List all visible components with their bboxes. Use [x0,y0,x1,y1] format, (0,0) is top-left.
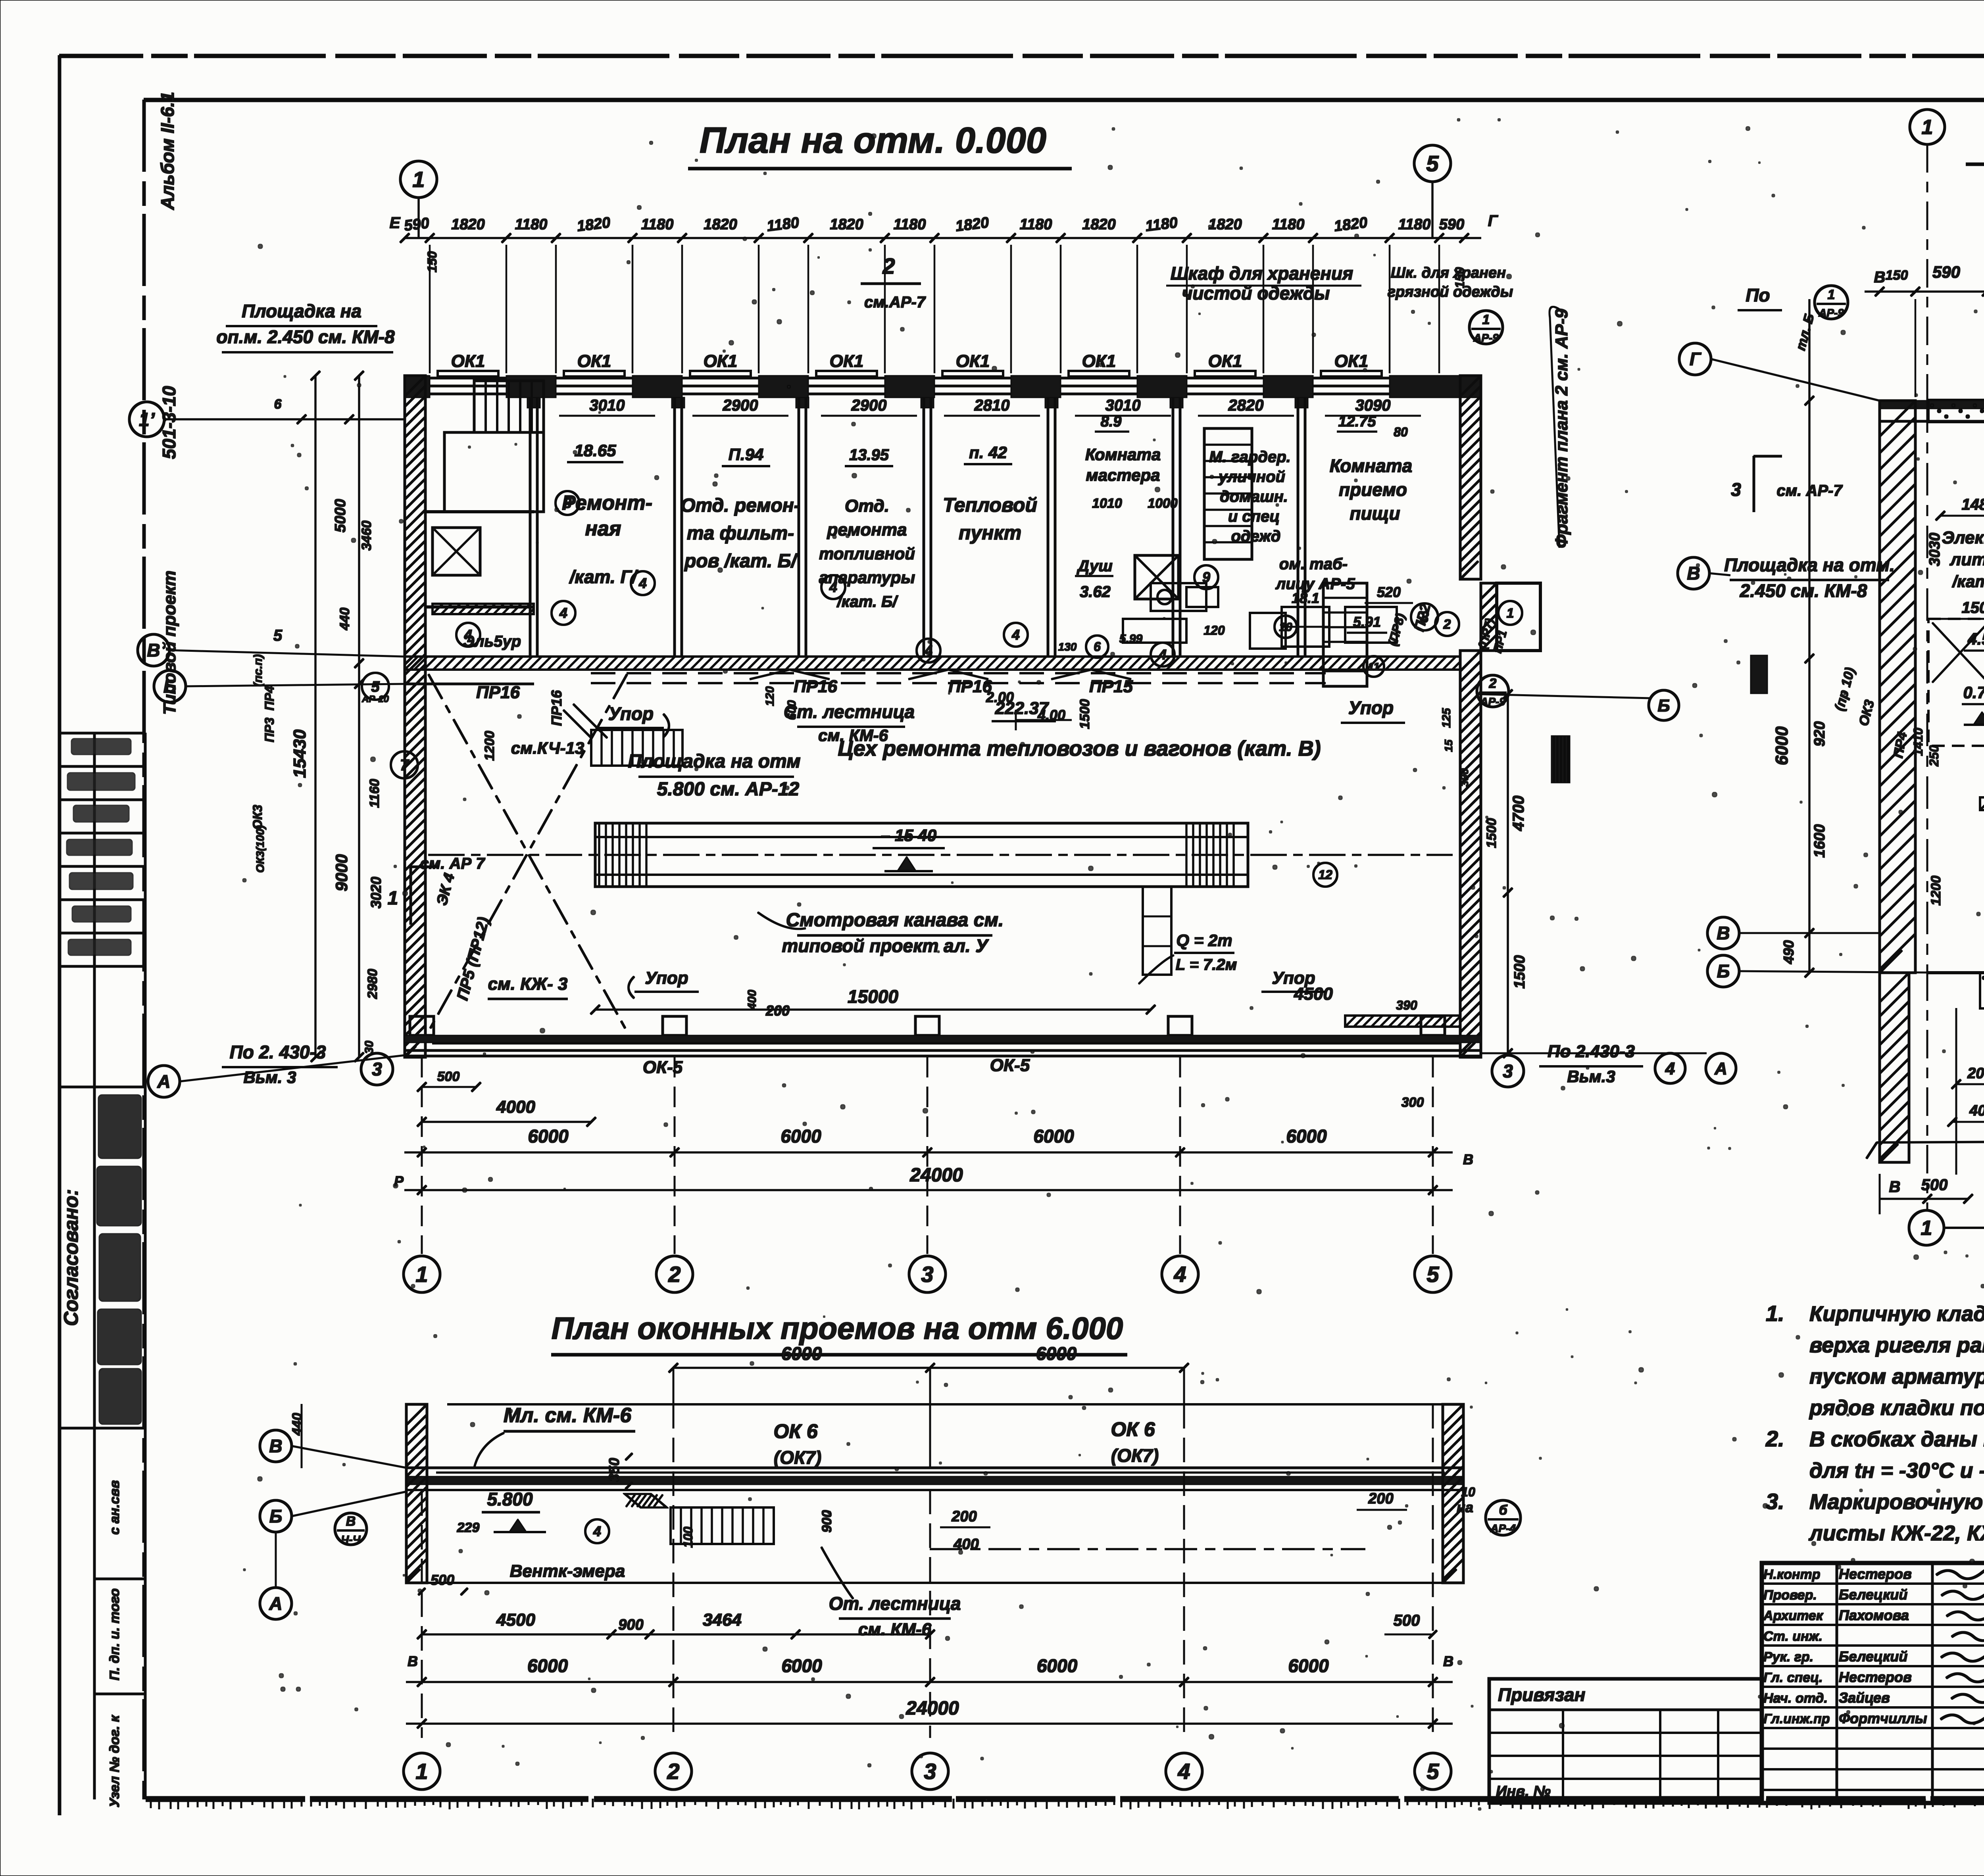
svg-text:3.62: 3.62 [1080,583,1111,601]
svg-text:домашн.: домашн. [1220,488,1288,505]
svg-text:А: А [157,1071,170,1092]
svg-text:АР-4: АР-4 [1490,1522,1516,1534]
svg-text:Б: Б [1657,696,1670,715]
svg-text:ремонта: ремонта [827,520,907,540]
svg-text:6000: 6000 [781,1343,822,1364]
svg-text:1160: 1160 [367,779,382,808]
svg-text:18.65: 18.65 [574,441,616,460]
svg-text:А: А [1714,1059,1727,1078]
svg-text:для tн = -30°С и - 40°С.: для tн = -30°С и - 40°С. [1809,1459,1984,1482]
sidebar column line 2 [144,733,146,1799]
svg-text:Отд.: Отд. [845,496,889,516]
circle 6 [1086,636,1108,658]
svg-text:5.800: 5.800 [487,1489,533,1509]
svg-text:АР-9: АР-9 [1818,307,1844,319]
svg-text:Смотровая канава см.: Смотровая канава см. [786,910,1004,931]
svg-text:Вьм.3: Вьм.3 [1567,1067,1615,1086]
svg-text:1: 1 [415,1262,428,1287]
scan noise speckles [243,119,1984,1810]
svg-text:229: 229 [457,1520,480,1535]
svg-text:б: б [1499,1503,1507,1518]
svg-text:ПР16: ПР16 [794,677,837,696]
svg-text:Пахомова: Пахомова [1839,1607,1909,1623]
svg-text:оп.м. 2.450 см. КМ-8: оп.м. 2.450 см. КМ-8 [216,326,395,347]
north exterior wall with windows OK1 [405,376,430,397]
svg-text:12.75: 12.75 [1338,413,1376,430]
window plan parapet line [448,1404,1463,1405]
left vertical dimension chain [358,376,360,1057]
svg-text:/кат. Г/: /кат. Г/ [569,566,638,587]
svg-text:листы КЖ-22, КЖ-23.: листы КЖ-22, КЖ-23. [1808,1521,1984,1545]
svg-text:4: 4 [1158,647,1167,663]
section mark 1 sm AR7 [410,867,412,924]
svg-text:Гл.инж.пр: Гл.инж.пр [1763,1711,1830,1726]
sheet inner frame left (dashed) [143,100,146,1799]
svg-text:6000: 6000 [1288,1655,1329,1676]
svg-text:5: 5 [371,678,380,695]
svg-text:А: А [269,1593,282,1614]
svg-text:11: 11 [1368,661,1379,673]
svg-text:1200: 1200 [1928,876,1944,906]
svg-text:Фортчиллы: Фортчиллы [1839,1710,1927,1726]
stair hatch upper left of pit [591,730,682,766]
svg-text:Цех ремонта тепловозов и ваг: Цех ремонта тепловозов и вагонов (кат. В… [838,737,1321,760]
right letter B circle [1649,690,1679,720]
fragment axis circle 1 top [1910,109,1945,144]
circle 4 markers along corridor [456,623,480,647]
svg-text:Н.контр: Н.контр [1763,1567,1821,1582]
svg-text:4500: 4500 [496,1610,535,1630]
svg-text:4: 4 [1011,627,1020,643]
svg-text:пуском арматуры в швы торц: пуском арматуры в швы торцевых стен чере… [1809,1365,1984,1388]
svg-text:400: 400 [1969,1102,1984,1119]
svg-text:1: 1 [1922,116,1933,139]
svg-text:3460: 3460 [359,520,374,551]
svg-text:ОК-5: ОК-5 [990,1056,1030,1075]
svg-text:2810: 2810 [974,397,1010,414]
svg-text:1820: 1820 [451,216,485,233]
svg-text:В: В [147,640,160,661]
svg-text:500: 500 [1394,1612,1420,1629]
svg-text:Нестеров: Нестеров [1839,1566,1912,1582]
svg-text:3010: 3010 [1105,397,1141,414]
svg-text:2: 2 [1443,617,1451,632]
fragment letter circles V B left [1707,917,1739,949]
svg-text:1500: 1500 [1511,955,1528,989]
fragment axis 1 line inside [1927,401,1928,973]
svg-text:ПР16: ПР16 [476,683,520,702]
svg-text:2980: 2980 [365,969,380,999]
fragment concrete pier [1980,973,1984,1008]
svg-text:3: 3 [372,1059,382,1079]
svg-text:3090: 3090 [1355,397,1391,414]
fragment left wall hatched [1880,401,1915,973]
window plan letter circles [260,1430,292,1462]
svg-text:1500: 1500 [1077,699,1092,729]
svg-text:900: 900 [819,1510,834,1533]
svg-text:ОК1: ОК1 [1334,351,1369,371]
svg-text:см. КЖ- 3: см. КЖ- 3 [488,974,568,994]
sheet outer border left [58,56,61,1815]
svg-text:120: 120 [763,686,777,706]
svg-text:на: на [1457,1499,1473,1515]
circle 3 bottom-left [361,1053,393,1085]
svg-text:Б: Б [163,676,177,697]
svg-text:В: В [1889,1178,1901,1196]
window plan window triple lines [436,1472,1444,1473]
svg-text:6: 6 [1094,639,1101,654]
svg-text:Мл. см. КМ-6: Мл. см. КМ-6 [504,1404,632,1427]
svg-text:1: 1 [1828,287,1835,302]
circle 8 remont [556,491,579,515]
window plan stair treads [671,1507,774,1544]
pit ladder left [598,823,600,887]
svg-text:см.АР-7: см.АР-7 [864,294,926,311]
svg-text:ная: ная [585,517,621,540]
svg-text:3464: 3464 [703,1610,742,1630]
svg-text:П.94: П.94 [729,445,764,464]
svg-text:1480: 1480 [1962,496,1984,513]
svg-text:Привязан: Привязан [1498,1684,1585,1705]
svg-text:1410: 1410 [1911,728,1925,756]
svg-text:5.91: 5.91 [1353,614,1381,630]
title block signature columns [1836,1563,1838,1803]
svg-text:150: 150 [1886,268,1908,283]
svg-text:Шкаф для хранения: Шкаф для хранения [1171,263,1353,284]
sheet outer border top (rough dashed) [60,54,1984,58]
dim row 24000 [405,1189,1452,1191]
window plan circle V/Ch-Ch [335,1513,367,1545]
svg-text:Ст. инж.: Ст. инж. [1763,1629,1823,1644]
svg-text:9000: 9000 [332,854,351,891]
svg-text:12: 12 [1318,868,1332,882]
svg-text:6000: 6000 [1036,1343,1077,1364]
svg-text:В: В [269,1436,282,1456]
window plan bottom line [409,1582,1464,1584]
bottom edge perforation ticks [151,1799,1984,1809]
svg-text:4: 4 [1173,1262,1186,1287]
svg-text:4000: 4000 [496,1097,535,1117]
svg-text:В: В [1874,269,1886,286]
svg-text:590: 590 [1439,216,1464,233]
svg-text:500: 500 [431,1572,454,1588]
fragment axis B dashdot right [1960,972,1984,974]
fragment bottom break line [1877,1139,1984,1142]
svg-text:Нестеров: Нестеров [1839,1669,1912,1685]
svg-text:Упор: Упор [1272,968,1315,988]
svg-text:5: 5 [1426,151,1439,176]
svg-text:В: В [1717,923,1730,943]
svg-text:(ОК7): (ОК7) [1111,1445,1159,1466]
small fixtures near shower [1151,583,1206,611]
window plan dashdot line right [930,1548,1365,1550]
svg-text:В: В [346,1514,356,1529]
south wall window lines OK-5 [433,1043,1460,1044]
svg-text:Инв. №: Инв. № [1496,1783,1551,1800]
svg-text:18.1: 18.1 [1292,590,1319,606]
title block outer box [1762,1563,1984,1803]
svg-text:0.750: 0.750 [1963,683,1984,702]
svg-text:ОК 6: ОК 6 [1111,1418,1155,1440]
svg-text:ОК-5: ОК-5 [643,1058,683,1077]
fragment lintel concrete blocks [1928,400,1984,422]
svg-text:Б: Б [1717,961,1730,981]
svg-text:3: 3 [1503,1061,1513,1081]
svg-text:222.37: 222.37 [995,699,1050,718]
fixture block [1123,619,1186,643]
svg-text:ОК1: ОК1 [704,351,738,371]
svg-text:ОК1: ОК1 [830,351,864,371]
svg-text:501-3-10: 501-3-10 [159,386,179,459]
svg-text:Нач. отд.: Нач. отд. [1763,1691,1828,1706]
stair block center [1204,428,1252,559]
right side vertical dim 4700-1500 [1507,694,1509,1053]
stair block right [1323,583,1367,686]
svg-text:Площадка на отм.: Площадка на отм. [1724,555,1895,575]
svg-text:4700: 4700 [1510,796,1527,831]
south exterior wall [405,1035,1481,1043]
svg-text:390: 390 [1458,768,1471,787]
svg-text:/кат. Д/: /кат. Д/ [1952,572,1984,591]
svg-text:Архитек: Архитек [1763,1608,1824,1623]
window plan stair hatch [625,1494,667,1507]
svg-text:5: 5 [1426,1759,1439,1784]
svg-text:топливной: топливной [819,544,915,563]
gate stripes marker right wall [1551,736,1570,783]
svg-text:Эль5ур: Эль5ур [463,633,521,650]
svg-text:п. 42: п. 42 [969,443,1007,462]
svg-text:2: 2 [668,1262,681,1287]
svg-text:1180: 1180 [515,216,548,233]
circle 12 right of pit [1313,863,1337,887]
sidebar soglasovano smudges [98,1095,141,1158]
svg-text:4: 4 [1665,1059,1675,1078]
svg-text:200: 200 [1967,1065,1984,1082]
svg-text:грязной одежды: грязной одежды [1388,284,1513,300]
title block signature rows [1762,1583,1984,1584]
window plan left wall hatch [406,1404,427,1583]
svg-text:В скобках даны марки перемы: В скобках даны марки перемычек и оконных… [1809,1427,1984,1451]
svg-text:520: 520 [1377,584,1401,600]
svg-text:2: 2 [667,1759,679,1784]
svg-text:Белецкий: Белецкий [1839,1648,1907,1665]
svg-text:400: 400 [953,1536,979,1553]
svg-text:350: 350 [606,1458,622,1482]
svg-text:По 2. 430-3: По 2. 430-3 [230,1042,326,1062]
svg-text:1820: 1820 [1082,216,1116,233]
svg-text:1: 1 [412,167,425,192]
svg-text:2: 2 [1489,676,1497,691]
svg-text:мастера: мастера [1086,466,1160,484]
svg-text:Г: Г [1690,349,1701,369]
sidebar lower rows [94,1578,145,1580]
fragment left vertical dim chain [1809,300,1810,973]
svg-text:1500: 1500 [1962,599,1984,616]
stair block top-left [474,381,544,432]
window plan band walls [406,1467,1463,1469]
svg-text:АР-10: АР-10 [361,694,389,705]
svg-text:3030: 3030 [1926,533,1943,566]
svg-text:920: 920 [1811,721,1828,746]
svg-text:6000: 6000 [781,1126,821,1146]
svg-text:390: 390 [1396,998,1417,1012]
svg-text:АР-9: АР-9 [1480,695,1505,708]
circle b/AR bottom-left of notes [1486,1500,1521,1535]
svg-text:типовой проект ал. У: типовой проект ал. У [782,935,989,956]
svg-text:М. гардер.: М. гардер. [1209,448,1291,466]
fragment bottom axis circles 1 2 [1909,1210,1944,1245]
svg-text:Душ: Душ [1077,557,1113,575]
fragment bottom-left walls [1927,972,1984,974]
svg-text:см. КМ-6: см. КМ-6 [858,1620,932,1639]
svg-text:АР-9: АР-9 [1473,332,1499,344]
fragment top dimension line [1865,291,1984,292]
svg-text:ПР15: ПР15 [1089,677,1133,696]
svg-text:30: 30 [363,1041,376,1054]
window plan dim row 4500-900-3464 [422,1634,930,1635]
svg-text:Гл. спец.: Гл. спец. [1763,1670,1823,1685]
svg-text:500: 500 [1921,1176,1948,1194]
svg-text:3.: 3. [1766,1489,1784,1514]
window plan axis circles bottom [404,1753,440,1790]
svg-text:3: 3 [924,1759,936,1784]
svg-text:590: 590 [1932,263,1960,281]
svg-text:Упор: Упор [645,968,688,988]
pilaster marks below top wall [527,397,540,408]
svg-text:1: 1 [388,888,398,909]
svg-text:– 15 40: – 15 40 [881,826,936,845]
svg-text:Площадка на: Площадка на [242,301,361,321]
svg-text:2820: 2820 [1228,397,1264,414]
svg-text:Упор: Упор [1348,697,1394,718]
svg-text:Рук. гр.: Рук. гр. [1763,1649,1813,1665]
svg-text:6000: 6000 [781,1655,822,1676]
svg-text:пищи: пищи [1350,503,1400,524]
svg-text:100: 100 [681,1527,695,1548]
svg-text:ОК3(100): ОК3(100) [254,825,266,873]
sidebar signature smudges [71,739,131,755]
svg-text:Б: Б [269,1506,283,1527]
svg-text:Ст. лестница: Ст. лестница [784,701,915,722]
svg-text:В: В [408,1653,418,1669]
svg-text:5: 5 [1426,1262,1439,1287]
svg-text:Вентк-эмера: Вентк-эмера [510,1561,625,1581]
svg-text:Q = 2т: Q = 2т [1176,931,1232,950]
witness lines from dim line to wall [429,245,431,373]
right letter 2/AR-9 [1477,675,1509,707]
svg-text:125: 125 [1440,708,1453,728]
svg-text:1: 1 [1507,606,1514,621]
window plan dim row 6000 x4 [406,1681,1452,1683]
svg-text:По 2.430-3: По 2.430-3 [1548,1042,1635,1061]
svg-text:10: 10 [1461,1485,1475,1499]
svg-text:440: 440 [290,1413,305,1436]
svg-text:3: 3 [921,1262,933,1287]
washbasin row [1282,607,1329,647]
svg-text:24000: 24000 [909,1165,963,1186]
svg-text:5.800 см. АР-12: 5.800 см. АР-12 [657,779,800,800]
svg-text:1.: 1. [1766,1301,1784,1326]
svg-text:80: 80 [1394,425,1408,439]
svg-text:1: 1 [1482,312,1490,327]
svg-text:1010: 1010 [1092,496,1122,511]
svg-text:5: 5 [273,627,283,644]
right porch [1481,583,1497,651]
svg-text:литная: литная [1949,550,1984,569]
corridor secondary wall axis B left part [405,683,534,685]
axis circle 5 top [1414,145,1451,182]
svg-text:1’: 1’ [139,409,155,430]
svg-text:Г: Г [1488,212,1499,230]
axis circle 1-prime left [129,402,164,437]
sidebar signature table [60,732,145,734]
window plan right wall hatch [1443,1404,1463,1583]
inspection pit outline [595,823,1248,887]
svg-text:15430: 15430 [290,729,310,778]
circle 3 right [1411,603,1438,630]
svg-text:440: 440 [337,608,352,631]
dim row 6000 x4 [405,1152,1452,1153]
left exterior wall hatched [405,376,425,1057]
svg-text:Кирпичную кладку пилястр по: Кирпичную кладку пилястр по оси 5 выполн… [1809,1302,1984,1326]
svg-text:/кат. Б/: /кат. Б/ [836,593,899,611]
right side gate hatch [1345,1016,1460,1027]
svg-text:Отд. ремон-: Отд. ремон- [681,495,800,516]
sheet bottom border thick line [146,1797,1984,1802]
svg-text:с ан.свв: с ан.свв [107,1480,122,1534]
svg-text:590: 590 [403,215,430,234]
svg-text:см.КЧ-13: см.КЧ-13 [511,739,584,757]
svg-text:4: 4 [593,1523,601,1540]
interior partition walls vertical [529,397,531,657]
svg-text:Провер.: Провер. [1763,1588,1817,1603]
svg-text:1600: 1600 [1811,824,1828,858]
svg-text:4: 4 [829,579,837,595]
svg-text:6000: 6000 [1033,1126,1074,1146]
top dimension line [405,237,1481,239]
window plan top dim line [673,1367,1184,1369]
circle 5 left [362,673,389,700]
svg-text:2900: 2900 [723,397,758,414]
svg-text:рядов кладки по высоте.: рядов кладки по высоте. [1809,1396,1984,1420]
fragment axis 1 vertical line [1927,144,1928,401]
svg-text:ПР3: ПР3 [262,718,277,742]
svg-text:Белецкий: Белецкий [1839,1586,1907,1603]
svg-text:Ч-Ч: Ч-Ч [341,1533,361,1546]
privyazan table [1489,1679,1762,1803]
svg-text:1820: 1820 [704,216,737,233]
axis circle 1 top [400,161,437,198]
main plan bottom letter 4-A pair right [1655,1053,1685,1083]
svg-text:200: 200 [765,1002,790,1019]
svg-text:1820: 1820 [830,216,863,233]
svg-text:1180: 1180 [1020,216,1052,233]
svg-text:Узел № дог. к: Узел № дог. к [107,1715,122,1807]
svg-text:6000: 6000 [527,1655,568,1676]
sidebar column line [94,733,96,1799]
svg-text:П. дп. и. того: П. дп. и. того [107,1588,122,1680]
svg-text:Тепловой: Тепловой [943,494,1037,516]
black section marker right of main plan [1751,655,1767,693]
svg-text:130: 130 [1058,641,1077,653]
svg-text:250: 250 [1927,745,1941,767]
svg-text:Комната: Комната [1085,445,1161,464]
svg-text:6: 6 [274,397,282,412]
svg-text:Электро-: Электро- [1942,528,1984,547]
sheet inner frame top [144,98,1984,102]
svg-text:1180: 1180 [1272,216,1305,233]
svg-text:2: 2 [882,253,895,278]
